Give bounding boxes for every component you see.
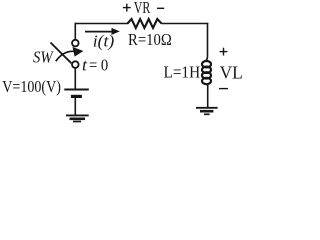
switch SW closing arc [56, 51, 74, 61]
battery V1 positive plate [64, 89, 89, 91]
svg-text:i(t): i(t) [93, 31, 115, 50]
switch SW top contact [72, 40, 79, 47]
switch SW closing arrow head [73, 47, 84, 57]
wire right vertical [205, 23, 208, 62]
label + (VR plus) [123, 4, 131, 12]
label minus (VL) [219, 88, 228, 90]
label + (VL plus) [220, 48, 228, 56]
svg-text:L=1H: L=1H [164, 63, 201, 82]
wire inductor to ground [206, 84, 209, 107]
svg-text:VR: VR [134, 0, 151, 17]
inductor L1 coil [202, 61, 211, 84]
switch SW bottom contact [72, 61, 79, 68]
ground right [196, 108, 218, 115]
svg-text:= 0: = 0 [89, 56, 108, 75]
wire top-left vertical [74, 23, 76, 40]
wire battery to ground [74, 98, 76, 115]
wire top horizontal left lead [75, 23, 129, 25]
svg-text:R=10Ω: R=10Ω [128, 30, 172, 49]
label minus (VR) [157, 7, 164, 9]
ground left [66, 115, 89, 121]
current arrow i(t) head [112, 28, 120, 35]
wire switch to battery [74, 68, 76, 89]
battery V1 negative plate [71, 95, 82, 98]
svg-text:V=100(V): V=100(V) [2, 77, 61, 96]
current arrow i(t) shaft [85, 31, 113, 33]
wire top horizontal right lead [162, 23, 209, 25]
switch SW blade [51, 43, 72, 64]
svg-text:VL: VL [220, 63, 243, 83]
resistor R1 zigzag [128, 19, 162, 28]
svg-text:t: t [82, 56, 87, 75]
svg-text:SW: SW [33, 48, 54, 67]
